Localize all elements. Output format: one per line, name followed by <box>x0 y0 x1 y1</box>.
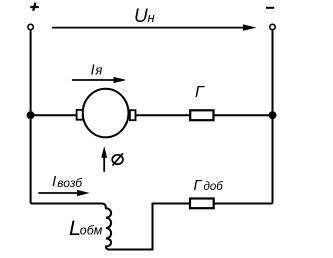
svg-text:доб: доб <box>204 181 224 193</box>
svg-text:I: I <box>52 173 56 190</box>
svg-text:возб: возб <box>57 176 83 190</box>
svg-text:U: U <box>134 6 148 27</box>
svg-text:Г: Г <box>195 84 205 101</box>
svg-text:н: н <box>148 10 155 25</box>
svg-text:обм: обм <box>80 223 103 237</box>
svg-text:я: я <box>94 63 102 78</box>
svg-text:Г: Г <box>194 178 203 194</box>
svg-text:I: I <box>91 61 95 78</box>
